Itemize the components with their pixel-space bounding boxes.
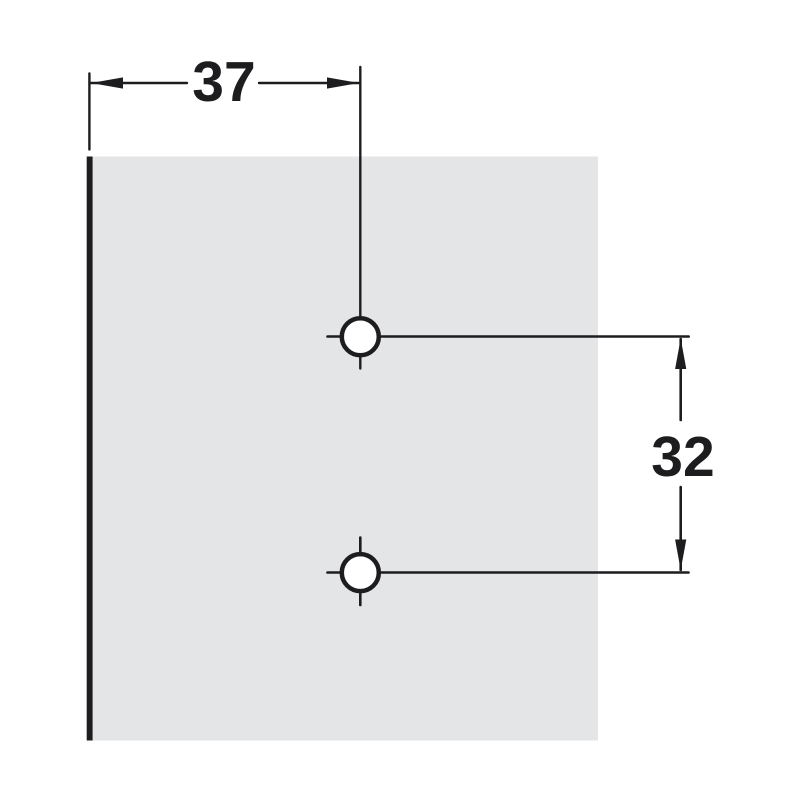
- dimension line 32 lower segment: [679, 487, 682, 570]
- dimension line 37 left segment: [91, 82, 187, 84]
- panel front edge (thick black band): [87, 157, 93, 741]
- svg-text:32: 32: [651, 425, 714, 489]
- hole A circle: [342, 318, 379, 355]
- svg-text:37: 37: [192, 50, 255, 114]
- hole B circle: [342, 554, 379, 591]
- dimension line 32 upper segment: [679, 339, 682, 420]
- arrowhead down (dim 32): [675, 540, 686, 571]
- arrowhead up (dim 32): [675, 339, 686, 370]
- arrowhead left (dim 37): [91, 77, 123, 88]
- hole B vertical tick: [359, 538, 362, 606]
- panel (grey board face): [92, 157, 598, 741]
- dimension line 37 right segment: [259, 82, 359, 84]
- hole A axis line (horizontal): [328, 335, 689, 338]
- centerline through hole A (also right extension of dim 37): [359, 67, 361, 369]
- arrowhead right (dim 37): [327, 77, 359, 88]
- hole B axis line (horizontal): [328, 571, 689, 574]
- extension line left (dim 37): [88, 73, 90, 149]
